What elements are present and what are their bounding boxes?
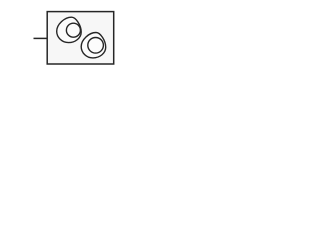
component box	[47, 12, 114, 64]
grommet ring 2	[81, 33, 106, 58]
grommet ring 1	[57, 17, 82, 42]
wire	[34, 37, 48, 39]
